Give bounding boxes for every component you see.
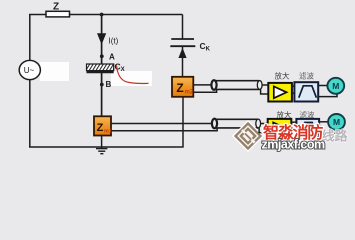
wire Zm2 vertical to bottom <box>182 97 184 148</box>
node A <box>100 54 104 58</box>
svg-text:U~: U~ <box>24 66 35 75</box>
impedance Zm1 <box>94 116 111 135</box>
arrow I(t) <box>97 33 106 44</box>
source U~ <box>19 60 40 79</box>
svg-text:滤波: 滤波 <box>299 70 314 80</box>
wire CK to Zm2 <box>182 47 184 78</box>
node junction top <box>100 13 104 17</box>
amplifier box top <box>268 83 292 102</box>
svg-text:放大: 放大 <box>277 109 292 119</box>
svg-text:Z: Z <box>53 2 59 13</box>
filter box top <box>294 82 318 101</box>
motor M bottom <box>328 114 345 130</box>
svg-text:I(t): I(t) <box>109 37 119 46</box>
svg-text:B: B <box>106 80 112 89</box>
arrow up under CK <box>178 48 186 58</box>
amplifier box bottom <box>268 119 292 138</box>
wire shield to amp bottom <box>259 128 268 133</box>
red decay curve <box>117 66 149 84</box>
resistor Z <box>46 11 70 17</box>
wire filter to motor top <box>318 85 328 87</box>
wire Zm2 to coax top row <box>193 84 212 86</box>
wire bottom horizontal <box>29 146 184 148</box>
filter box bottom <box>296 119 319 138</box>
coax cable bottom row <box>215 118 259 120</box>
svg-text:M: M <box>332 81 339 91</box>
wire CK vertical <box>182 15 184 39</box>
wires Zm1 to coax bottom row <box>111 123 213 125</box>
svg-text:zmjaxf.com: zmjaxf.com <box>262 138 325 152</box>
coax bottom right end cap <box>256 119 261 128</box>
wire top horizontal <box>29 14 183 16</box>
wire coax to amp top <box>263 84 269 86</box>
capacitor CX hatched plate <box>87 64 114 71</box>
watermark logo diamond <box>236 124 261 149</box>
svg-text:m1: m1 <box>104 129 112 135</box>
wire filter to motor bottom <box>319 121 328 123</box>
ground stem <box>101 136 103 149</box>
wire motor return top <box>318 94 337 97</box>
wire left vertical <box>29 15 31 148</box>
motor M top <box>327 78 344 94</box>
wire I(t) branch vertical <box>101 15 103 117</box>
svg-text:放大: 放大 <box>275 70 290 80</box>
wire shield to amp top <box>261 89 269 94</box>
node B <box>100 83 104 87</box>
svg-text:M: M <box>333 117 340 127</box>
wires amp to filter bottom <box>291 121 296 123</box>
svg-text:线路: 线路 <box>322 129 349 144</box>
impedance Zm2 <box>172 77 193 97</box>
coax cable top row <box>214 80 260 82</box>
wire motor return bottom <box>319 130 337 133</box>
svg-text:m2: m2 <box>185 90 194 96</box>
svg-text:Z: Z <box>176 81 183 95</box>
capacitor CK <box>171 38 194 40</box>
wires amp to filter top <box>292 85 295 87</box>
svg-text:Z: Z <box>97 122 104 134</box>
ground <box>96 148 107 150</box>
wire coax to amp bottom <box>261 123 268 125</box>
svg-text:滤波: 滤波 <box>300 109 315 119</box>
